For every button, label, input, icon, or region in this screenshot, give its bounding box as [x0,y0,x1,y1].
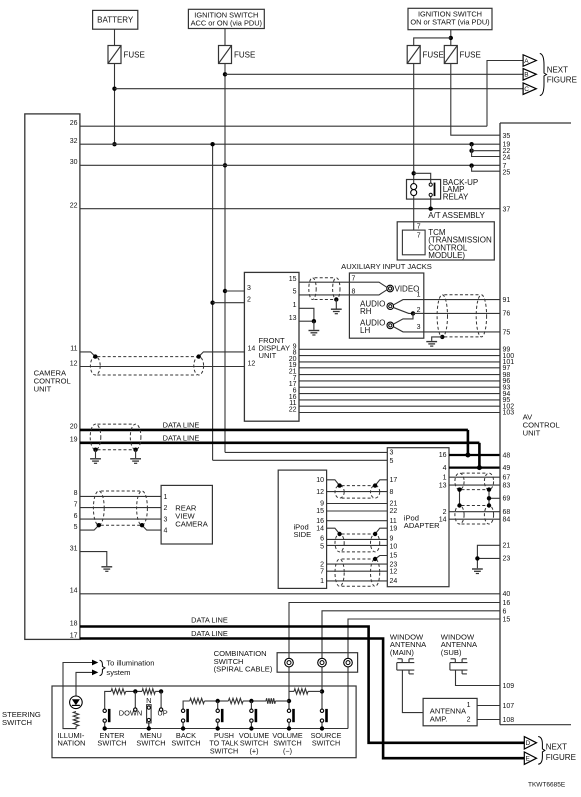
svg-text:16: 16 [316,518,324,525]
svg-text:RELAY: RELAY [443,193,469,202]
svg-text:83: 83 [503,482,511,489]
svg-text:2: 2 [443,509,447,516]
svg-text:3: 3 [390,450,394,457]
svg-text:AMP.: AMP. [430,714,448,723]
svg-text:22: 22 [70,203,78,210]
svg-text:7: 7 [320,568,324,575]
svg-text:103: 103 [503,410,515,417]
svg-text:2: 2 [320,561,324,568]
svg-text:DATA LINE: DATA LINE [191,616,228,625]
svg-text:67: 67 [503,474,511,481]
svg-text:14: 14 [248,346,256,353]
svg-text:(MAIN): (MAIN) [390,648,415,657]
svg-text:8: 8 [390,489,394,496]
svg-text:FIGURE: FIGURE [547,76,577,85]
svg-text:15: 15 [316,508,324,515]
svg-text:14: 14 [70,588,78,595]
svg-text:24: 24 [390,578,398,585]
svg-text:68: 68 [503,509,511,516]
svg-text:LH: LH [360,326,370,335]
svg-text:FUSE: FUSE [460,51,481,60]
svg-text:7: 7 [417,233,421,240]
svg-text:26: 26 [70,120,78,127]
svg-text:12: 12 [316,489,324,496]
svg-text:SWITCH: SWITCH [312,739,340,748]
svg-text:49: 49 [503,465,511,472]
svg-text:12: 12 [390,568,398,575]
svg-text:9: 9 [390,535,394,542]
svg-text:NEXT: NEXT [546,743,567,752]
svg-text:109: 109 [503,683,515,690]
svg-text:To illumination: To illumination [106,659,154,668]
svg-text:SIDE: SIDE [294,530,312,539]
svg-text:8: 8 [74,490,78,497]
svg-text:SWITCH: SWITCH [210,747,238,756]
svg-text:15: 15 [289,276,297,283]
svg-text:DATA LINE: DATA LINE [191,629,228,638]
svg-text:91: 91 [503,297,511,304]
svg-text:16: 16 [503,600,511,607]
svg-text:19: 19 [390,525,398,532]
svg-text:5: 5 [390,458,394,465]
svg-text:BATTERY: BATTERY [97,16,134,25]
svg-text:10: 10 [316,477,324,484]
svg-text:1: 1 [164,494,168,501]
svg-text:3: 3 [164,517,168,524]
svg-text:15: 15 [390,553,398,560]
svg-text:DATA LINE: DATA LINE [163,420,200,429]
svg-text:CAMERA: CAMERA [175,520,208,529]
svg-text:14: 14 [439,516,447,523]
svg-text:7: 7 [74,501,78,508]
svg-text:1: 1 [293,302,297,309]
svg-text:N: N [146,696,151,705]
svg-text:NATION: NATION [57,739,85,748]
svg-text:2: 2 [417,307,421,314]
svg-text:TKWT6685E: TKWT6685E [528,782,566,789]
svg-text:16: 16 [439,452,447,459]
svg-text:FUSE: FUSE [234,51,255,60]
svg-text:RH: RH [360,307,372,316]
svg-text:UNIT: UNIT [259,351,277,360]
svg-text:SWITCH: SWITCH [97,739,126,748]
svg-text:E: E [526,756,531,763]
svg-text:22: 22 [289,407,297,414]
svg-text:(+): (+) [250,747,259,756]
svg-text:22: 22 [390,508,398,515]
svg-text:2: 2 [164,505,168,512]
svg-text:1: 1 [320,578,324,585]
svg-text:18: 18 [70,620,78,627]
svg-text:MODULE): MODULE) [428,251,465,260]
svg-text:4: 4 [443,465,447,472]
svg-text:11: 11 [390,518,397,525]
svg-text:8: 8 [352,288,356,295]
svg-text:SWITCH: SWITCH [136,739,165,748]
svg-text:40: 40 [503,591,511,598]
svg-text:24: 24 [503,155,511,162]
svg-text:2: 2 [467,717,471,724]
svg-text:12: 12 [70,360,78,367]
svg-text:ON or START (via PDU): ON or START (via PDU) [410,18,489,27]
svg-text:35: 35 [503,133,511,140]
svg-text:23: 23 [390,561,398,568]
svg-text:3: 3 [417,324,421,331]
svg-text:DATA LINE: DATA LINE [163,433,200,442]
svg-text:31: 31 [70,545,78,552]
svg-text:D: D [526,740,531,747]
svg-text:7: 7 [417,224,421,231]
svg-text:SWITCH: SWITCH [2,718,32,727]
svg-text:FIGURE: FIGURE [546,753,576,762]
svg-text:13: 13 [439,482,447,489]
svg-text:1: 1 [417,291,421,298]
svg-text:1: 1 [443,474,447,481]
svg-text:19: 19 [70,437,78,444]
svg-text:DOWN: DOWN [119,709,142,718]
svg-text:FUSE: FUSE [124,51,145,60]
svg-text:B: B [524,72,528,79]
svg-text:7: 7 [352,275,356,282]
svg-text:UNIT: UNIT [523,428,541,437]
svg-text:75: 75 [503,329,511,336]
svg-text:ACC or ON (via PDU): ACC or ON (via PDU) [191,19,262,28]
svg-text:107: 107 [503,703,515,710]
svg-text:25: 25 [503,169,511,176]
svg-text:48: 48 [503,453,511,460]
svg-text:17: 17 [70,632,78,639]
svg-text:37: 37 [503,206,511,213]
svg-text:AUXILIARY INPUT JACKS: AUXILIARY INPUT JACKS [341,262,432,271]
svg-text:5: 5 [293,289,297,296]
svg-text:14: 14 [316,525,324,532]
svg-text:30: 30 [70,159,78,166]
svg-text:6: 6 [74,513,78,520]
svg-text:(SPIRAL CABLE): (SPIRAL CABLE) [214,665,273,674]
svg-text:4: 4 [164,528,168,535]
svg-text:system: system [106,668,130,677]
svg-text:(−): (−) [283,747,292,756]
svg-text:ADAPTER: ADAPTER [404,521,440,530]
svg-text:5: 5 [74,524,78,531]
svg-text:A: A [524,58,529,65]
svg-text:10: 10 [390,544,398,551]
svg-text:108: 108 [503,717,515,724]
svg-text:23: 23 [503,556,511,563]
svg-text:13: 13 [289,315,297,322]
svg-text:84: 84 [503,516,511,523]
svg-text:A/T ASSEMBLY: A/T ASSEMBLY [428,211,485,220]
svg-text:32: 32 [70,138,78,145]
svg-text:6: 6 [503,608,507,615]
svg-text:2: 2 [247,297,251,304]
svg-text:21: 21 [503,543,511,550]
svg-text:C: C [524,86,529,93]
svg-text:UNIT: UNIT [34,385,52,394]
svg-text:FUSE: FUSE [423,51,444,60]
svg-text:3: 3 [247,285,251,292]
svg-text:NEXT: NEXT [547,65,568,74]
svg-text:SWITCH: SWITCH [171,739,200,748]
svg-text:69: 69 [503,496,511,503]
svg-text:76: 76 [503,311,511,318]
svg-text:21: 21 [390,501,398,508]
svg-text:20: 20 [70,424,78,431]
svg-text:6: 6 [320,535,324,542]
svg-text:17: 17 [390,477,398,484]
svg-text:9: 9 [320,501,324,508]
svg-text:(SUB): (SUB) [441,648,462,657]
svg-text:11: 11 [70,346,77,353]
svg-text:12: 12 [248,360,256,367]
svg-text:1: 1 [467,702,471,709]
svg-text:15: 15 [503,617,511,624]
svg-text:UP: UP [157,709,167,718]
svg-text:5: 5 [320,544,324,551]
